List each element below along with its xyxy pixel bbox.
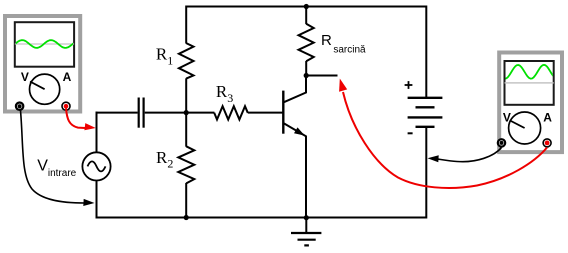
- multimeter M1 red terminal: [62, 102, 70, 110]
- resistor R2: [178, 146, 194, 183]
- annotation arrow M2 red lead: [339, 79, 347, 92]
- battery B1 label -: [408, 132, 413, 134]
- battery B1 wire bottom: [425, 127, 427, 219]
- multimeter M2 dial: [509, 112, 541, 144]
- wire bottom rail: [96, 217, 427, 219]
- node base (junction dot R1/R2/cap/base): [184, 110, 189, 115]
- node collector (junction dot): [304, 73, 309, 78]
- svg-text:Vintrare: Vintrare: [37, 157, 76, 179]
- battery B1 label +: [405, 81, 413, 89]
- svg-text:R3: R3: [216, 82, 233, 105]
- transistor Q1 emitter: [283, 123, 306, 219]
- svg-text:R2: R2: [156, 148, 173, 171]
- multimeter M1 screen: [14, 22, 74, 66]
- annotation wire Vintrare (black lead from M1 black terminal): [21, 111, 86, 204]
- wire input left vertical (bottom): [96, 180, 98, 218]
- node bottom-R2 (junction dot): [184, 215, 189, 220]
- annotation wire M2 red lead (to collector node): [343, 92, 547, 188]
- multimeter M2 screen: [504, 61, 555, 105]
- svg-text:A: A: [543, 110, 552, 124]
- multimeter M2 red terminal: [543, 139, 551, 147]
- resistor Rsarcina: [299, 24, 314, 62]
- transistor Q1 collector: [283, 76, 306, 103]
- wire input left vertical (top): [96, 112, 98, 153]
- annotation arrow M2 black lead: [428, 155, 439, 162]
- annotation arrow Vintrare: [83, 199, 94, 206]
- resistor R3: [214, 106, 248, 119]
- multimeter M2 black terminal: [498, 139, 505, 146]
- wire top rail: [186, 6, 426, 8]
- capacitor C1: [139, 98, 144, 128]
- multimeter M2 frame (right meter): [499, 53, 562, 153]
- wire R3 left (node to R3): [186, 112, 214, 114]
- annotation wire M2 black lead (to battery minus): [436, 148, 502, 162]
- ground symbol: [291, 218, 321, 246]
- svg-text:R1: R1: [156, 45, 173, 68]
- svg-text:V: V: [21, 70, 29, 84]
- annotation arrow M1 red lead: [84, 123, 95, 130]
- svg-text:Rsarcină: Rsarcină: [321, 32, 366, 56]
- wire Rsarcina top: [305, 7, 307, 25]
- resistor R1: [179, 43, 194, 79]
- transistor Q1 emitter arrow: [294, 127, 305, 135]
- node top (junction dot at Rsarcina top): [304, 4, 309, 9]
- multimeter M1 dial: [29, 74, 59, 104]
- svg-text:A: A: [63, 70, 72, 84]
- wire base left (capacitor to node): [145, 112, 188, 114]
- wire R1 top: [185, 6, 187, 44]
- wire R1 bottom: [185, 78, 187, 113]
- multimeter M1 frame (left meter): [5, 16, 80, 112]
- wire collector stub right: [306, 75, 337, 77]
- wire R3 right (to base): [248, 112, 283, 114]
- battery B1 wire top: [425, 6, 427, 98]
- multimeter M1 black terminal: [16, 103, 23, 110]
- source V1 (AC source): [82, 152, 110, 180]
- node emitter-ground (junction dot): [304, 215, 309, 220]
- wire capacitor left: [96, 112, 138, 114]
- battery B1 plates: [408, 98, 443, 127]
- wire Rsarcina bottom: [305, 61, 307, 76]
- annotation wire M1 red lead: [66, 109, 85, 129]
- wire R2 top: [185, 113, 187, 147]
- transistor Q1 base bar: [282, 91, 284, 134]
- wire R2 bottom: [185, 183, 187, 219]
